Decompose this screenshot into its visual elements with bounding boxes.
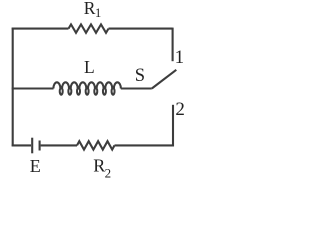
resistor R2 xyxy=(77,141,115,149)
node 1 terminal stub xyxy=(172,28,174,62)
battery E plate long xyxy=(31,138,33,154)
wire left rail xyxy=(12,28,14,147)
svg-text:R: R xyxy=(93,155,105,175)
wire bottom-left segment xyxy=(12,144,31,146)
svg-text:R: R xyxy=(84,0,96,18)
svg-text:1: 1 xyxy=(175,47,185,68)
switch S lever xyxy=(152,70,177,89)
svg-text:2: 2 xyxy=(105,166,112,181)
wire middle-left segment xyxy=(12,87,54,89)
svg-text:1: 1 xyxy=(95,6,101,20)
node 2 terminal stub xyxy=(172,105,174,147)
wire middle-right segment xyxy=(121,87,152,89)
wire top-left segment xyxy=(12,28,69,30)
wire bottom-right segment xyxy=(115,144,175,146)
wire battery to R2 xyxy=(41,144,77,146)
svg-text:S: S xyxy=(135,66,145,86)
svg-text:E: E xyxy=(30,156,41,176)
svg-text:2: 2 xyxy=(175,99,185,120)
wire top-right segment xyxy=(109,28,173,30)
inductor L xyxy=(53,82,120,94)
svg-text:L: L xyxy=(84,57,95,77)
resistor R1 xyxy=(69,24,109,32)
battery E plate short xyxy=(39,141,41,151)
